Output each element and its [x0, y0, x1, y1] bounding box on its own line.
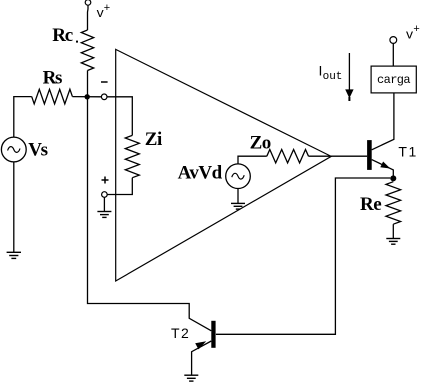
label v+ right — [406, 24, 420, 43]
label Zi — [145, 129, 162, 150]
wire feedback emitter node to T2 base — [216, 178, 390, 334]
wire inverting input to Zi — [107, 97, 132, 136]
label minus sign — [101, 81, 108, 83]
svg-text:Zo: Zo — [250, 132, 271, 153]
ground Re — [386, 239, 400, 245]
T1 emitter — [372, 160, 394, 179]
label AvVd — [178, 163, 223, 184]
arrow Iout — [345, 53, 353, 101]
svg-text:Re: Re — [360, 194, 381, 215]
T2 emitter — [192, 341, 212, 375]
svg-text:Zi: Zi — [145, 129, 162, 150]
resistor Zi — [125, 135, 139, 177]
node junction Rs/Rc — [85, 94, 90, 99]
svg-text:Rc: Rc — [52, 25, 72, 46]
label v+ top-left — [96, 3, 110, 21]
label plus sign — [102, 177, 109, 184]
wire Zi to plus terminal — [107, 178, 132, 195]
ground Vs — [7, 252, 21, 258]
wire Vs top to Rs — [14, 97, 32, 138]
resistor Zo — [267, 150, 309, 163]
svg-text:T1: T1 — [398, 144, 417, 160]
source Vs — [1, 137, 26, 162]
ground AvVd — [231, 203, 245, 209]
wire AvVd to output row — [238, 156, 267, 164]
resistor Re — [386, 182, 401, 225]
wire V+ to Rc — [87, 5, 90, 30]
transistor T2 base bar — [211, 321, 215, 348]
box carga — [371, 66, 416, 93]
terminal V+ top-left — [85, 0, 91, 5]
label Zo — [250, 132, 271, 153]
wire Vs to ground — [13, 162, 15, 252]
label Re — [360, 194, 381, 215]
resistor Rc — [81, 30, 93, 71]
label T2 — [171, 325, 190, 341]
wire plus terminal to ground — [103, 197, 105, 211]
ground non-inverting input — [97, 212, 111, 218]
svg-text:T2: T2 — [171, 325, 190, 341]
resistor Rs — [32, 89, 73, 104]
node T1 emitter — [390, 175, 396, 181]
wire carga to V+ — [392, 43, 394, 66]
wire AvVd to ground — [237, 189, 239, 204]
svg-text:AvVd: AvVd — [178, 163, 223, 184]
terminal inverting input — [101, 94, 107, 100]
op-amp triangle — [116, 49, 332, 281]
transistor T1 base bar — [367, 140, 372, 170]
T1 collector — [372, 93, 394, 150]
terminal V+ right — [390, 37, 397, 44]
source AvVd — [226, 164, 251, 189]
label Vs — [28, 140, 47, 161]
wire Rc to junction — [87, 71, 89, 97]
label T1 — [398, 144, 417, 160]
svg-text:+: + — [413, 24, 420, 36]
svg-text:+: + — [104, 3, 111, 15]
wire Re to ground — [392, 224, 394, 238]
ground T2 — [184, 375, 198, 381]
label carga — [377, 73, 410, 87]
svg-text:carga: carga — [377, 73, 410, 87]
wire junction to T2 collector — [88, 97, 212, 331]
svg-text:Vs: Vs — [28, 140, 47, 161]
wire Zo to T1 base — [309, 155, 368, 157]
terminal non-inverting input — [102, 192, 108, 198]
label Rc — [52, 25, 78, 46]
label Rs — [43, 68, 62, 89]
svg-text:Rs: Rs — [43, 68, 62, 89]
wire Rs to junction and minus terminal — [72, 96, 101, 98]
svg-text:out: out — [323, 71, 343, 83]
label Iout — [319, 63, 343, 83]
